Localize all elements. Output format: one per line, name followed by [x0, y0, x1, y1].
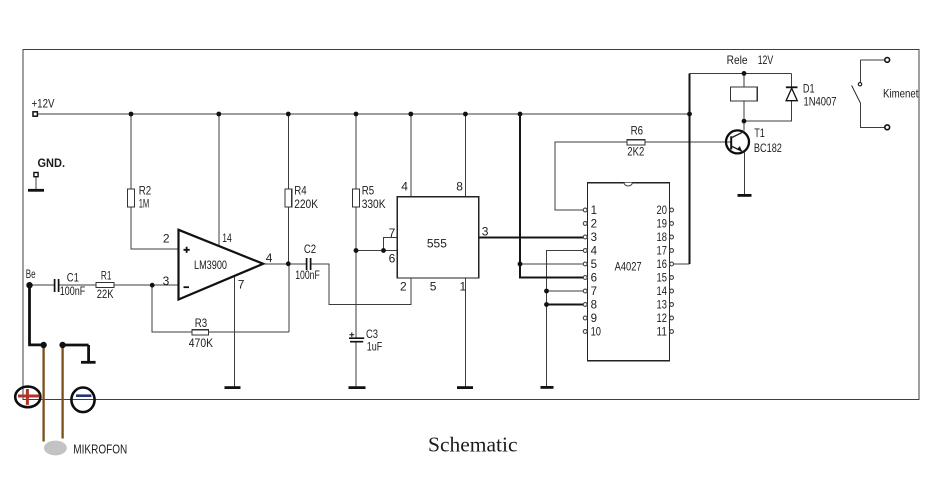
svg-text:8: 8 — [456, 179, 463, 193]
svg-text:Rele: Rele — [727, 53, 748, 67]
svg-text:8: 8 — [591, 300, 597, 312]
svg-text:7: 7 — [389, 226, 396, 240]
svg-text:470K: 470K — [189, 336, 213, 350]
svg-text:12V: 12V — [758, 53, 774, 67]
svg-text:17: 17 — [657, 246, 667, 258]
svg-text:14: 14 — [657, 286, 668, 298]
svg-text:R2: R2 — [139, 183, 152, 197]
svg-text:MIKROFON: MIKROFON — [73, 442, 127, 457]
svg-text:3: 3 — [163, 274, 170, 288]
svg-text:14: 14 — [222, 231, 232, 245]
svg-text:Be: Be — [26, 267, 36, 281]
svg-text:Kimenet: Kimenet — [883, 87, 919, 101]
svg-text:7: 7 — [238, 277, 245, 291]
svg-text:2: 2 — [163, 231, 170, 245]
svg-text:R3: R3 — [195, 316, 208, 330]
svg-text:5: 5 — [430, 280, 437, 294]
svg-text:220K: 220K — [294, 197, 318, 211]
svg-text:10: 10 — [591, 327, 601, 339]
svg-text:330K: 330K — [362, 197, 386, 211]
svg-text:12: 12 — [657, 313, 667, 325]
svg-text:2: 2 — [400, 280, 407, 294]
svg-text:19: 19 — [657, 219, 667, 231]
svg-text:1N4007: 1N4007 — [804, 95, 837, 109]
svg-text:15: 15 — [657, 273, 667, 285]
svg-text:16: 16 — [657, 259, 667, 271]
svg-text:1: 1 — [591, 205, 597, 217]
svg-text:C2: C2 — [304, 242, 316, 256]
svg-text:22K: 22K — [97, 287, 114, 301]
svg-text:4: 4 — [401, 180, 408, 194]
svg-text:2: 2 — [591, 219, 597, 231]
svg-text:9: 9 — [591, 313, 597, 325]
svg-text:1uF: 1uF — [367, 339, 383, 353]
svg-text:T1: T1 — [754, 126, 765, 140]
svg-text:1: 1 — [460, 280, 467, 294]
svg-text:100nF: 100nF — [60, 284, 85, 298]
svg-text:+12V: +12V — [32, 96, 55, 110]
svg-text:R6: R6 — [631, 123, 644, 137]
svg-text:LM3900: LM3900 — [194, 258, 227, 272]
svg-text:C1: C1 — [67, 270, 79, 284]
svg-text:3: 3 — [482, 225, 489, 239]
svg-text:100nF: 100nF — [295, 268, 320, 282]
svg-text:5: 5 — [591, 259, 597, 271]
svg-text:D1: D1 — [803, 82, 815, 96]
svg-text:6: 6 — [591, 273, 597, 285]
svg-text:Schematic: Schematic — [428, 432, 518, 456]
svg-text:A4027: A4027 — [615, 259, 642, 273]
svg-text:555: 555 — [427, 236, 447, 250]
svg-text:BC182: BC182 — [754, 141, 782, 155]
svg-text:2K2: 2K2 — [627, 145, 644, 159]
svg-text:4: 4 — [591, 246, 598, 258]
svg-text:20: 20 — [657, 205, 667, 217]
svg-text:R4: R4 — [294, 183, 307, 197]
svg-text:4: 4 — [266, 251, 273, 265]
svg-text:13: 13 — [657, 300, 667, 312]
svg-text:GND.: GND. — [38, 156, 66, 170]
svg-text:7: 7 — [591, 286, 597, 298]
svg-text:3: 3 — [591, 232, 597, 244]
svg-text:R5: R5 — [362, 183, 375, 197]
svg-text:18: 18 — [657, 232, 667, 244]
svg-text:R1: R1 — [101, 268, 112, 282]
svg-text:1M: 1M — [139, 197, 150, 211]
svg-text:11: 11 — [657, 327, 667, 339]
svg-text:6: 6 — [389, 252, 396, 266]
